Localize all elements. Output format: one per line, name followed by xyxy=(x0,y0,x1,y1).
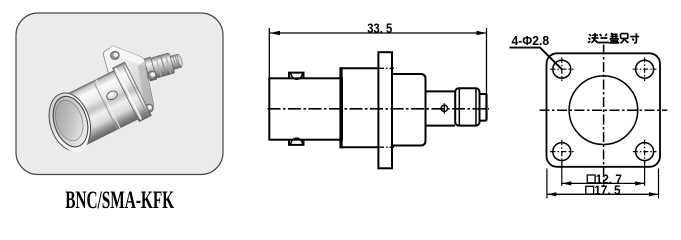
flange plate (photo) xyxy=(103,46,153,124)
center line xyxy=(268,108,490,110)
寸 xyxy=(630,33,639,43)
caption BNC/SMA-KFK xyxy=(65,187,174,214)
right body section xyxy=(392,74,426,146)
plate hole bottom-left xyxy=(116,110,125,118)
body section xyxy=(341,68,379,147)
dim text 17.5 xyxy=(594,183,620,198)
dim line 12.7 xyxy=(562,182,645,184)
dim text 33.5 xyxy=(367,21,392,36)
collar ring xyxy=(113,62,152,121)
sma neck xyxy=(426,91,456,125)
hole bottom-right xyxy=(636,143,654,161)
extension lines for 17.5 xyxy=(546,169,548,199)
plate hole top-left xyxy=(111,51,120,59)
尺 xyxy=(620,34,628,44)
hole top-right xyxy=(636,60,654,78)
arrowheads xyxy=(270,31,280,35)
extension lines for 12.7 xyxy=(561,162,563,186)
flange side view xyxy=(378,52,392,168)
plate hole bottom-right xyxy=(144,104,153,112)
plate edge highlight xyxy=(108,46,146,66)
plate hole top-right xyxy=(148,71,157,79)
bottom bayonet lug xyxy=(289,140,304,145)
dim line 17.5 xyxy=(547,193,659,195)
hidden line across flange xyxy=(380,67,397,69)
horizontal centerline xyxy=(540,109,668,111)
hole top-left xyxy=(553,60,571,78)
thread end xyxy=(480,94,487,121)
vertical centerline xyxy=(603,45,605,187)
dimension line 33.5 xyxy=(269,28,486,94)
product card background xyxy=(16,13,223,175)
barrel front rim xyxy=(42,88,97,158)
SMA connector rear xyxy=(144,49,185,81)
hole bottom-left xyxy=(553,143,571,161)
svg-text:17. 5: 17. 5 xyxy=(594,183,620,198)
label 4-phi2.8 xyxy=(512,34,550,48)
bayonet stud xyxy=(105,89,119,101)
top bayonet lug xyxy=(289,73,304,79)
dim text 12.7 xyxy=(596,172,622,187)
screw hole circle xyxy=(441,105,447,111)
flange square xyxy=(547,53,661,167)
leader line 4-phi2.8 xyxy=(510,48,562,70)
svg-text:BNC/SMA-KFK: BNC/SMA-KFK xyxy=(65,187,174,214)
square symbol 17.5 xyxy=(586,186,594,194)
plate right side shade xyxy=(138,61,154,112)
svg-text:33. 5: 33. 5 xyxy=(367,21,392,36)
connector photo group xyxy=(42,46,184,158)
盘 xyxy=(609,33,619,43)
chinese label 法兰盘尺寸 xyxy=(588,33,639,43)
svg-text:4-Φ2.8: 4-Φ2.8 xyxy=(512,34,550,48)
square symbol 12.7 xyxy=(587,175,595,183)
兰 xyxy=(599,34,609,43)
法 xyxy=(588,33,599,43)
big center circle xyxy=(569,76,638,145)
BNC barrel outline xyxy=(269,78,342,139)
sma nut xyxy=(455,88,479,125)
BNC barrel xyxy=(58,62,151,149)
